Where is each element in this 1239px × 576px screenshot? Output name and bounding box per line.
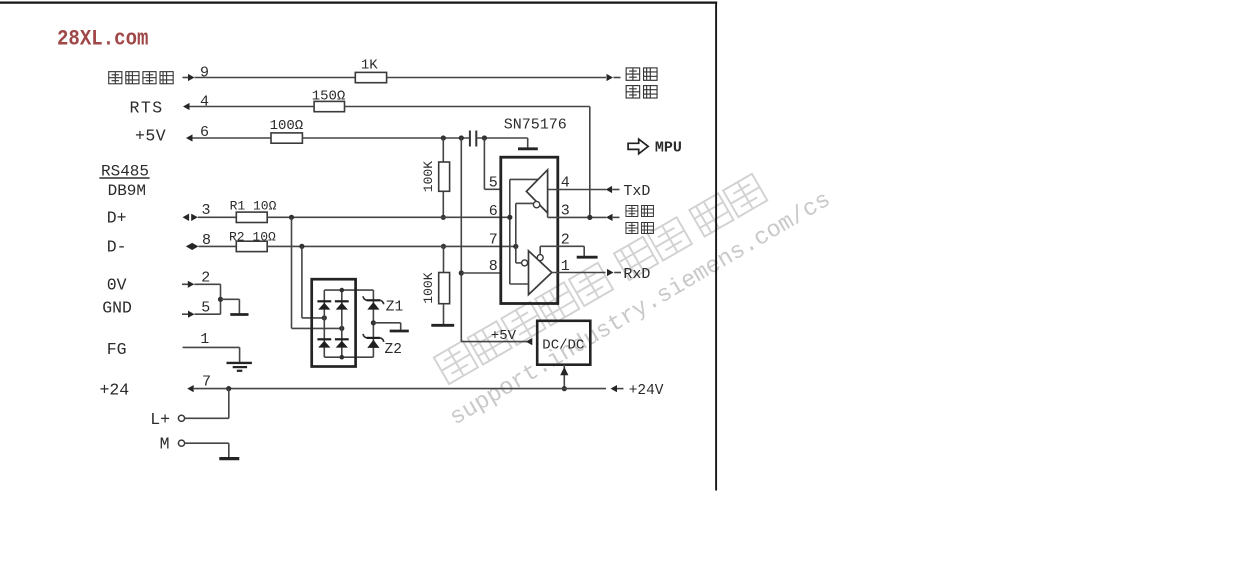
svg-text:0V: 0V (107, 276, 127, 295)
zener Z1 (367, 302, 379, 310)
wire cap to gnd corner (476, 137, 527, 139)
wire bridge left column (323, 290, 325, 357)
wire zener mid to ground (373, 322, 400, 324)
resistor 150ohm (314, 101, 344, 111)
junction dot D+ branch (289, 215, 294, 220)
node 使能 label (626, 223, 638, 234)
resistor R1 (236, 212, 267, 222)
resistor 100K top (439, 162, 450, 191)
zener Z2 (367, 340, 379, 348)
svg-text:5: 5 (489, 174, 498, 191)
wire bridge bottom rail to zener column (324, 356, 373, 358)
junction dot pin6 internal (507, 215, 512, 220)
frame right border (715, 3, 717, 491)
wire pin9 to R3 (195, 77, 356, 79)
internal wire to receiver lower input (510, 283, 529, 285)
ground bar zener (390, 330, 409, 333)
watermark line 2 (445, 187, 835, 432)
junction dot RTS/pin3 (587, 215, 592, 220)
wire bridge right column (341, 290, 343, 357)
capacitor C1 (469, 131, 471, 147)
svg-text:9: 9 (200, 65, 209, 82)
underline (99, 177, 149, 179)
wire zener column (372, 290, 374, 357)
diode D4 (bridge bottom-right) (336, 341, 348, 348)
bridge box outline (312, 279, 356, 366)
arrow up into DCDC (560, 367, 568, 375)
terminal arrow RxD (607, 269, 614, 276)
wire +5V to R5 (193, 137, 272, 139)
wire D+ to R1 (198, 216, 237, 218)
internal pin3 stub (547, 213, 549, 217)
junction dot top rail (340, 288, 345, 293)
wire RTS to R4 (190, 106, 315, 108)
svg-text:DB9M: DB9M (108, 182, 146, 200)
junction dot bridge left column (322, 315, 327, 320)
svg-text:3: 3 (202, 202, 211, 219)
wire R2 to chip pin7 (267, 245, 516, 247)
svg-text:4: 4 (200, 94, 209, 111)
diode D1 (bridge top-left) (318, 303, 330, 310)
wire +5V down to R6 (442, 138, 444, 162)
ground bar M (219, 457, 239, 460)
wire FG (183, 346, 240, 348)
value label 100K bottom (rotated) (421, 272, 436, 303)
junction dot zener mid (371, 320, 376, 325)
svg-text:100Ω: 100Ω (270, 118, 304, 134)
wire RTS arrow (183, 103, 190, 110)
junction dot D- branch (299, 244, 304, 249)
DC/DC converter U2 box (537, 321, 590, 365)
junction dot pin8/Vcc (459, 270, 464, 275)
wire D- down to bridge (301, 246, 303, 318)
wire D+ down to bridge (291, 217, 293, 328)
wire 1K to right terminal (387, 77, 606, 79)
internal stub to receiver bubble1 (515, 246, 517, 263)
svg-text:R2 10Ω: R2 10Ω (229, 230, 276, 245)
wire R6 to D+ line (442, 191, 444, 217)
junction dot 100K top (441, 135, 446, 140)
resistor 100K bottom (439, 273, 450, 304)
wire DCDC bottom to +24 line (563, 365, 565, 389)
svg-text:M: M (160, 435, 170, 454)
internal pin2 wire to receiver bubble (540, 245, 557, 247)
wire D- line down to R7 (443, 246, 445, 272)
driver enable bubble (533, 201, 539, 207)
junction dot pin7 internal (513, 244, 518, 249)
arrow 0V (182, 283, 188, 285)
ground bar below R7 (431, 324, 454, 327)
wire pin9 stub + arrow (183, 77, 189, 79)
svg-text:DC/DC: DC/DC (542, 338, 584, 354)
terminal arrow TxD (606, 186, 613, 193)
arrow GND (182, 313, 188, 315)
svg-text:+5V: +5V (491, 328, 517, 344)
svg-text:D+: D+ (107, 208, 127, 227)
op-amp receiver triangle (points right) (529, 251, 552, 295)
ground bar 0V/GND (230, 313, 248, 316)
svg-text:RxD: RxD (623, 266, 650, 283)
wire down to chip gnd (527, 138, 529, 148)
svg-text:1: 1 (200, 331, 209, 348)
svg-text:R1 10Ω: R1 10Ω (230, 198, 277, 213)
terminal arrow protocol select right (607, 74, 614, 81)
frame top border (0, 1, 717, 3)
wire pin1 RxD (552, 272, 606, 274)
svg-text:8: 8 (489, 258, 498, 275)
resistor 100ohm (271, 133, 302, 143)
wire 150ohm to corner (345, 106, 590, 108)
wire 0V (194, 283, 220, 285)
node 协议/选择 right label (626, 68, 639, 80)
wire +5Vcap node down to pin5 (483, 138, 485, 189)
node 协议选择 (protocol select) label (109, 72, 122, 84)
bidirectional arrow D+ (183, 214, 190, 221)
wire R7 to ground (443, 304, 445, 325)
svg-text:FG: FG (107, 340, 127, 359)
svg-text:L+: L+ (150, 410, 170, 429)
receiver enable bubble (537, 255, 543, 261)
wire 100ohm to cap (302, 137, 469, 139)
junction dot DCDC / +24 (562, 386, 567, 391)
ground bar pin2 (577, 256, 598, 259)
wire into chip pin5 (484, 188, 501, 190)
svg-text:GND: GND (102, 299, 132, 318)
diode D2 (bridge top-right) (336, 303, 348, 310)
svg-text:Z1: Z1 (386, 299, 403, 315)
wire watermark line 1 (site logo text, decorative but large) (434, 174, 767, 384)
junction dot 0V/GND tie (218, 297, 223, 302)
junction dot +24/L+ (226, 386, 231, 391)
bidirectional arrow D- (186, 243, 193, 250)
junction dot R6 / pin6 line (441, 215, 446, 220)
value label 100K top (rotated) (421, 161, 436, 192)
wire pin2 to ground (557, 245, 584, 247)
earth ground FG (227, 362, 252, 364)
wire +24 bus (194, 388, 606, 390)
wire vertical RTS to pin3 net (589, 107, 591, 218)
svg-text:1K: 1K (361, 57, 378, 73)
svg-text:+5V: +5V (135, 126, 166, 145)
wire D- to R2 (199, 245, 237, 247)
svg-text:MPU: MPU (655, 140, 682, 157)
chip internal bus line A (509, 179, 511, 284)
internal enable stub to driver bubble (515, 203, 517, 246)
wire pin8 from +5V net to chip (461, 272, 501, 274)
terminal arrow +24V (611, 385, 618, 392)
terminal arrow enable (606, 214, 613, 221)
svg-text:100K: 100K (421, 272, 436, 303)
svg-text:100K: 100K (421, 161, 436, 192)
wire +5V into DCDC with arrow (461, 341, 527, 343)
svg-text:SN75176: SN75176 (504, 117, 567, 134)
MPU block arrow (628, 139, 648, 154)
chip U1 outline (501, 157, 558, 303)
svg-text:+24: +24 (100, 380, 130, 399)
op-amp driver triangle (points left) (526, 170, 547, 213)
wire GND (195, 313, 221, 315)
svg-text:28XL.com: 28XL.com (57, 26, 149, 51)
junction dot cap/pin5 (482, 135, 487, 140)
wire L+ up to +24 (228, 389, 230, 419)
junction dot R7 / pin7 line (441, 244, 446, 249)
junction dot +5V/DCDC (459, 135, 464, 140)
arrow +24 (187, 385, 194, 392)
svg-text:RTS: RTS (130, 99, 164, 118)
svg-text:D-: D- (107, 237, 127, 256)
junction dot bridge right column (339, 326, 344, 331)
resistor 1K (355, 72, 386, 82)
node 收发 label (626, 206, 638, 217)
wire pin3 enable (548, 216, 607, 218)
wire pin4 TxD (548, 189, 606, 191)
svg-text:150Ω: 150Ω (312, 89, 346, 105)
wire L+ (185, 417, 229, 419)
wire +5V net vertical to DCDC (460, 138, 462, 342)
wire bridge top rail to zener column (324, 289, 373, 291)
wire R1 to chip pin6 (267, 216, 510, 218)
resistor R2 (236, 241, 267, 251)
diode D3 (bridge bottom-left) (318, 341, 330, 348)
receiver input bubble (522, 260, 528, 266)
svg-text:+24V: +24V (629, 383, 664, 399)
wire tie to ground stub (221, 298, 240, 300)
junction dot bottom rail (340, 355, 345, 360)
terminal circle M (178, 440, 184, 446)
ground bar above chip (518, 147, 538, 150)
wire 0V down to GND row (220, 284, 222, 314)
svg-text:TxD: TxD (623, 183, 650, 200)
terminal circle L+ (178, 415, 184, 421)
svg-text:Z2: Z2 (385, 342, 402, 358)
wire M (185, 442, 229, 444)
wire +5V arrow (186, 134, 193, 141)
internal wire to driver top (510, 178, 539, 180)
